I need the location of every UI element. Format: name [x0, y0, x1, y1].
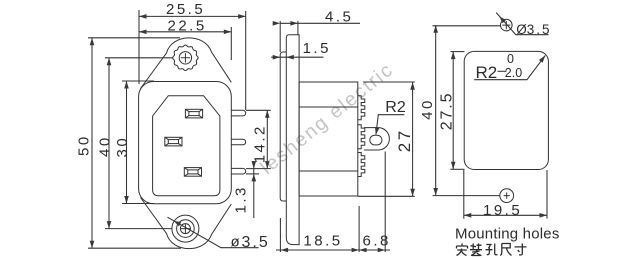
- svg-text:1.5: 1.5: [303, 40, 331, 57]
- svg-text:6.8: 6.8: [363, 233, 391, 250]
- svg-text:19.5: 19.5: [483, 202, 522, 219]
- svg-text:3.5: 3.5: [527, 22, 552, 37]
- svg-text:27: 27: [395, 128, 414, 152]
- svg-text:2.0: 2.0: [505, 66, 522, 80]
- svg-text:4.5: 4.5: [325, 9, 353, 26]
- svg-text:18.5: 18.5: [303, 233, 342, 250]
- svg-text:50: 50: [75, 134, 92, 156]
- svg-text:Ø: Ø: [516, 22, 527, 37]
- svg-text:30: 30: [114, 136, 131, 158]
- svg-text:14.2: 14.2: [252, 124, 269, 163]
- svg-text:3.5: 3.5: [242, 234, 270, 251]
- svg-text:40: 40: [97, 135, 114, 157]
- svg-text:lesheng electric: lesheng electric: [256, 58, 398, 178]
- svg-text:22.5: 22.5: [168, 17, 207, 34]
- svg-text:1.3: 1.3: [233, 185, 250, 213]
- svg-text:Mounting holes: Mounting holes: [455, 226, 560, 243]
- svg-text:25.5: 25.5: [166, 1, 205, 18]
- svg-text:R2: R2: [385, 99, 406, 116]
- svg-text:R2: R2: [476, 63, 498, 82]
- svg-text:40: 40: [419, 98, 436, 120]
- svg-text:ø: ø: [231, 234, 240, 251]
- svg-text:27.5: 27.5: [439, 92, 456, 131]
- svg-text:0: 0: [507, 52, 514, 66]
